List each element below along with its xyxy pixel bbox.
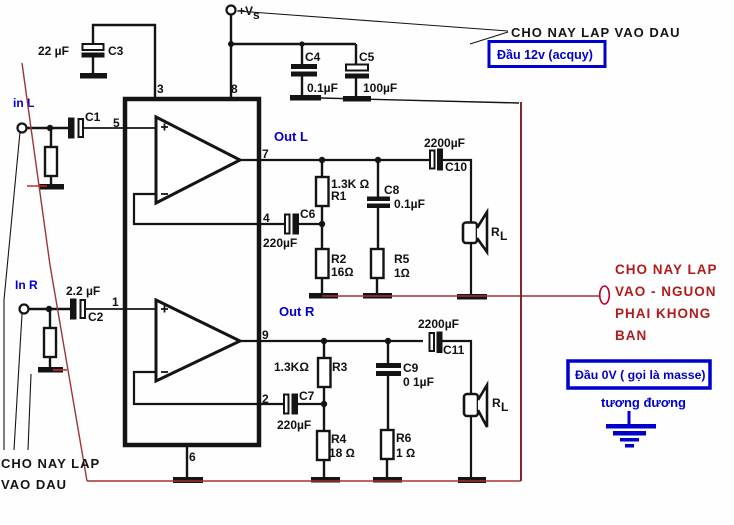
- node junction R3 top: [321, 338, 327, 344]
- svg-text:C11: C11: [443, 343, 465, 357]
- svg-text:R: R: [492, 396, 501, 410]
- node junction C9 top: [385, 338, 391, 344]
- svg-text:R6: R6: [396, 431, 412, 445]
- ground C5: [343, 96, 371, 102]
- svg-text:Đầu 12v (acquy): Đầu 12v (acquy): [497, 48, 593, 62]
- svg-text:CHO NAY LAP: CHO NAY LAP: [615, 262, 718, 277]
- resistor R6: [381, 430, 394, 459]
- svg-text:C1: C1: [85, 110, 101, 124]
- svg-text:18 Ω: 18 Ω: [329, 446, 355, 460]
- svg-text:CHO NAY LAP: CHO NAY LAP: [1, 456, 100, 471]
- wire C6 to R1 R2 junction: [298, 223, 322, 225]
- wire +Vs down to pin 8: [230, 15, 232, 97]
- svg-text:100µF: 100µF: [363, 81, 397, 95]
- wire red supply vertical right: [520, 102, 522, 481]
- svg-text:VAO DAU: VAO DAU: [1, 477, 67, 492]
- svg-text:s: s: [253, 8, 260, 22]
- red tick at in L ground: [27, 185, 47, 187]
- leader line to top annotation from +Vs: [237, 11, 508, 31]
- wire red diagonal left: [22, 63, 87, 481]
- wire In R to C2: [28, 308, 71, 310]
- wire Vs rail to C4 C5: [231, 43, 356, 45]
- node junction C8 top: [375, 157, 381, 163]
- wire output L: [240, 159, 429, 161]
- speaker RL right: [464, 394, 478, 416]
- resistor R4: [323, 404, 325, 431]
- svg-text:1Ω: 1Ω: [394, 266, 410, 280]
- svg-text:2200µF: 2200µF: [424, 136, 465, 150]
- ground R input L: [39, 184, 64, 190]
- wire red ground bus mid: [322, 295, 599, 297]
- node +Vs terminal: [227, 6, 236, 15]
- resistor R2: [321, 224, 323, 249]
- svg-text:L: L: [500, 229, 507, 243]
- ground R6: [373, 477, 402, 483]
- capacitor C9: [387, 341, 389, 364]
- ground R5: [363, 293, 392, 299]
- svg-text:1 Ω: 1 Ω: [396, 446, 415, 460]
- leader line In R to bottom text: [14, 314, 22, 450]
- svg-text:1.3KΩ: 1.3KΩ: [274, 360, 309, 374]
- wire C1 to pin 5: [84, 127, 156, 129]
- wire C10 to speaker L: [443, 160, 471, 223]
- svg-text:2: 2: [262, 392, 269, 406]
- svg-text:Out R: Out R: [279, 304, 315, 319]
- svg-text:R4: R4: [331, 432, 347, 446]
- node junction R1 top: [319, 157, 325, 163]
- svg-text:In R: In R: [15, 278, 38, 292]
- resistor R5: [371, 249, 384, 278]
- svg-text:BAN: BAN: [615, 328, 647, 343]
- wire red ground bus bottom: [87, 480, 521, 482]
- svg-text:PHAI KHONG: PHAI KHONG: [615, 306, 711, 321]
- svg-text:R2: R2: [331, 252, 347, 266]
- svg-text:C9: C9: [403, 361, 419, 375]
- capacitor C1: [68, 118, 75, 139]
- resistor R input L: [50, 128, 52, 147]
- annotation box Dau 0V: [568, 361, 710, 388]
- svg-text:C6: C6: [300, 207, 316, 221]
- wire C11 to speaker R: [442, 341, 471, 395]
- svg-text:8: 8: [231, 82, 238, 96]
- wire ground rail sloping to right vertical: [321, 98, 519, 103]
- svg-text:6: 6: [189, 450, 196, 464]
- svg-text:5: 5: [113, 116, 120, 130]
- svg-text:220µF: 220µF: [263, 236, 297, 250]
- node junction C7 R3 R4: [321, 401, 327, 407]
- ground pin 6: [173, 477, 203, 483]
- svg-text:C8: C8: [384, 183, 400, 197]
- annotation box Dau 12v: [489, 42, 605, 67]
- svg-text:in L: in L: [13, 96, 34, 110]
- svg-text:0.1µF: 0.1µF: [307, 81, 338, 95]
- leader line in L to bottom text: [4, 132, 20, 450]
- svg-text:L: L: [501, 400, 508, 414]
- ground R input R: [38, 367, 63, 373]
- svg-text:Đầu 0V ( gọi là masse): Đầu 0V ( gọi là masse): [575, 368, 706, 382]
- leader line In R ground to bottom text: [28, 374, 31, 450]
- pin 6 wire to ground: [186, 447, 188, 478]
- resistor R1: [321, 160, 323, 177]
- svg-text:C4: C4: [305, 50, 321, 64]
- ground R2: [309, 293, 338, 299]
- wire speaker R to ground: [470, 416, 472, 478]
- node junction In R: [46, 306, 52, 312]
- red tick at In R ground: [53, 369, 67, 371]
- svg-text:0 1µF: 0 1µF: [403, 375, 434, 389]
- svg-text:C7: C7: [299, 389, 315, 403]
- wire feedback U1B to pin 2: [134, 372, 284, 404]
- svg-text:tương đương: tương đương: [601, 395, 686, 410]
- svg-text:16Ω: 16Ω: [331, 265, 354, 279]
- op-amp U1A: [156, 117, 240, 203]
- ground R4: [311, 477, 340, 483]
- leader line arrow tick top annotation: [470, 32, 508, 44]
- capacitor C6: [285, 215, 290, 234]
- ground symbol blue: [628, 411, 631, 424]
- wire in L to C1: [26, 127, 69, 129]
- wire C7 to R3 R4 junction: [297, 403, 324, 405]
- svg-text:R1: R1: [331, 189, 347, 203]
- capacitor C7: [284, 395, 289, 414]
- svg-text:22 µF: 22 µF: [38, 44, 69, 58]
- capacitor C4: [301, 44, 303, 64]
- node red terminal ellipse: [600, 286, 610, 304]
- svg-text:R: R: [491, 225, 500, 239]
- node junction C6 R1 R2: [319, 221, 325, 227]
- op-amp U1B: [156, 300, 240, 381]
- ground C3: [80, 73, 107, 79]
- ground C4: [290, 95, 321, 101]
- svg-text:C10: C10: [445, 160, 467, 174]
- svg-text:1: 1: [112, 295, 119, 309]
- svg-text:C3: C3: [108, 44, 124, 58]
- ground speaker R: [458, 477, 486, 483]
- wire C2 to pin 1: [86, 308, 156, 310]
- svg-text:3: 3: [157, 82, 164, 96]
- speaker RL left: [463, 223, 477, 244]
- capacitor C5: [355, 44, 357, 64]
- wire output R: [240, 340, 423, 342]
- svg-text:CHO NAY LAP VAO DAU: CHO NAY LAP VAO DAU: [511, 25, 681, 40]
- svg-text:C5: C5: [359, 50, 375, 64]
- svg-text:C2: C2: [88, 310, 104, 324]
- svg-text:0.1µF: 0.1µF: [394, 197, 425, 211]
- svg-text:R5: R5: [394, 252, 410, 266]
- svg-text:2200µF: 2200µF: [418, 317, 459, 331]
- svg-text:2.2 µF: 2.2 µF: [66, 284, 100, 298]
- capacitor C8: [377, 160, 379, 197]
- svg-text:4: 4: [263, 211, 270, 225]
- svg-text:VAO - NGUON: VAO - NGUON: [615, 284, 717, 299]
- IC U1: [125, 99, 259, 445]
- svg-text:220µF: 220µF: [277, 418, 311, 432]
- svg-text:R3: R3: [332, 360, 348, 374]
- ground speaker L: [457, 294, 487, 300]
- resistor R input R: [49, 309, 51, 328]
- node junction Vs rail: [228, 41, 234, 47]
- node junction in L: [47, 125, 53, 131]
- svg-text:Out L: Out L: [274, 129, 308, 144]
- resistor R3: [323, 341, 325, 358]
- wire feedback U1A to pin 4: [134, 194, 285, 224]
- wire speaker L to ground: [470, 243, 472, 295]
- node junction C4 rail: [299, 41, 304, 46]
